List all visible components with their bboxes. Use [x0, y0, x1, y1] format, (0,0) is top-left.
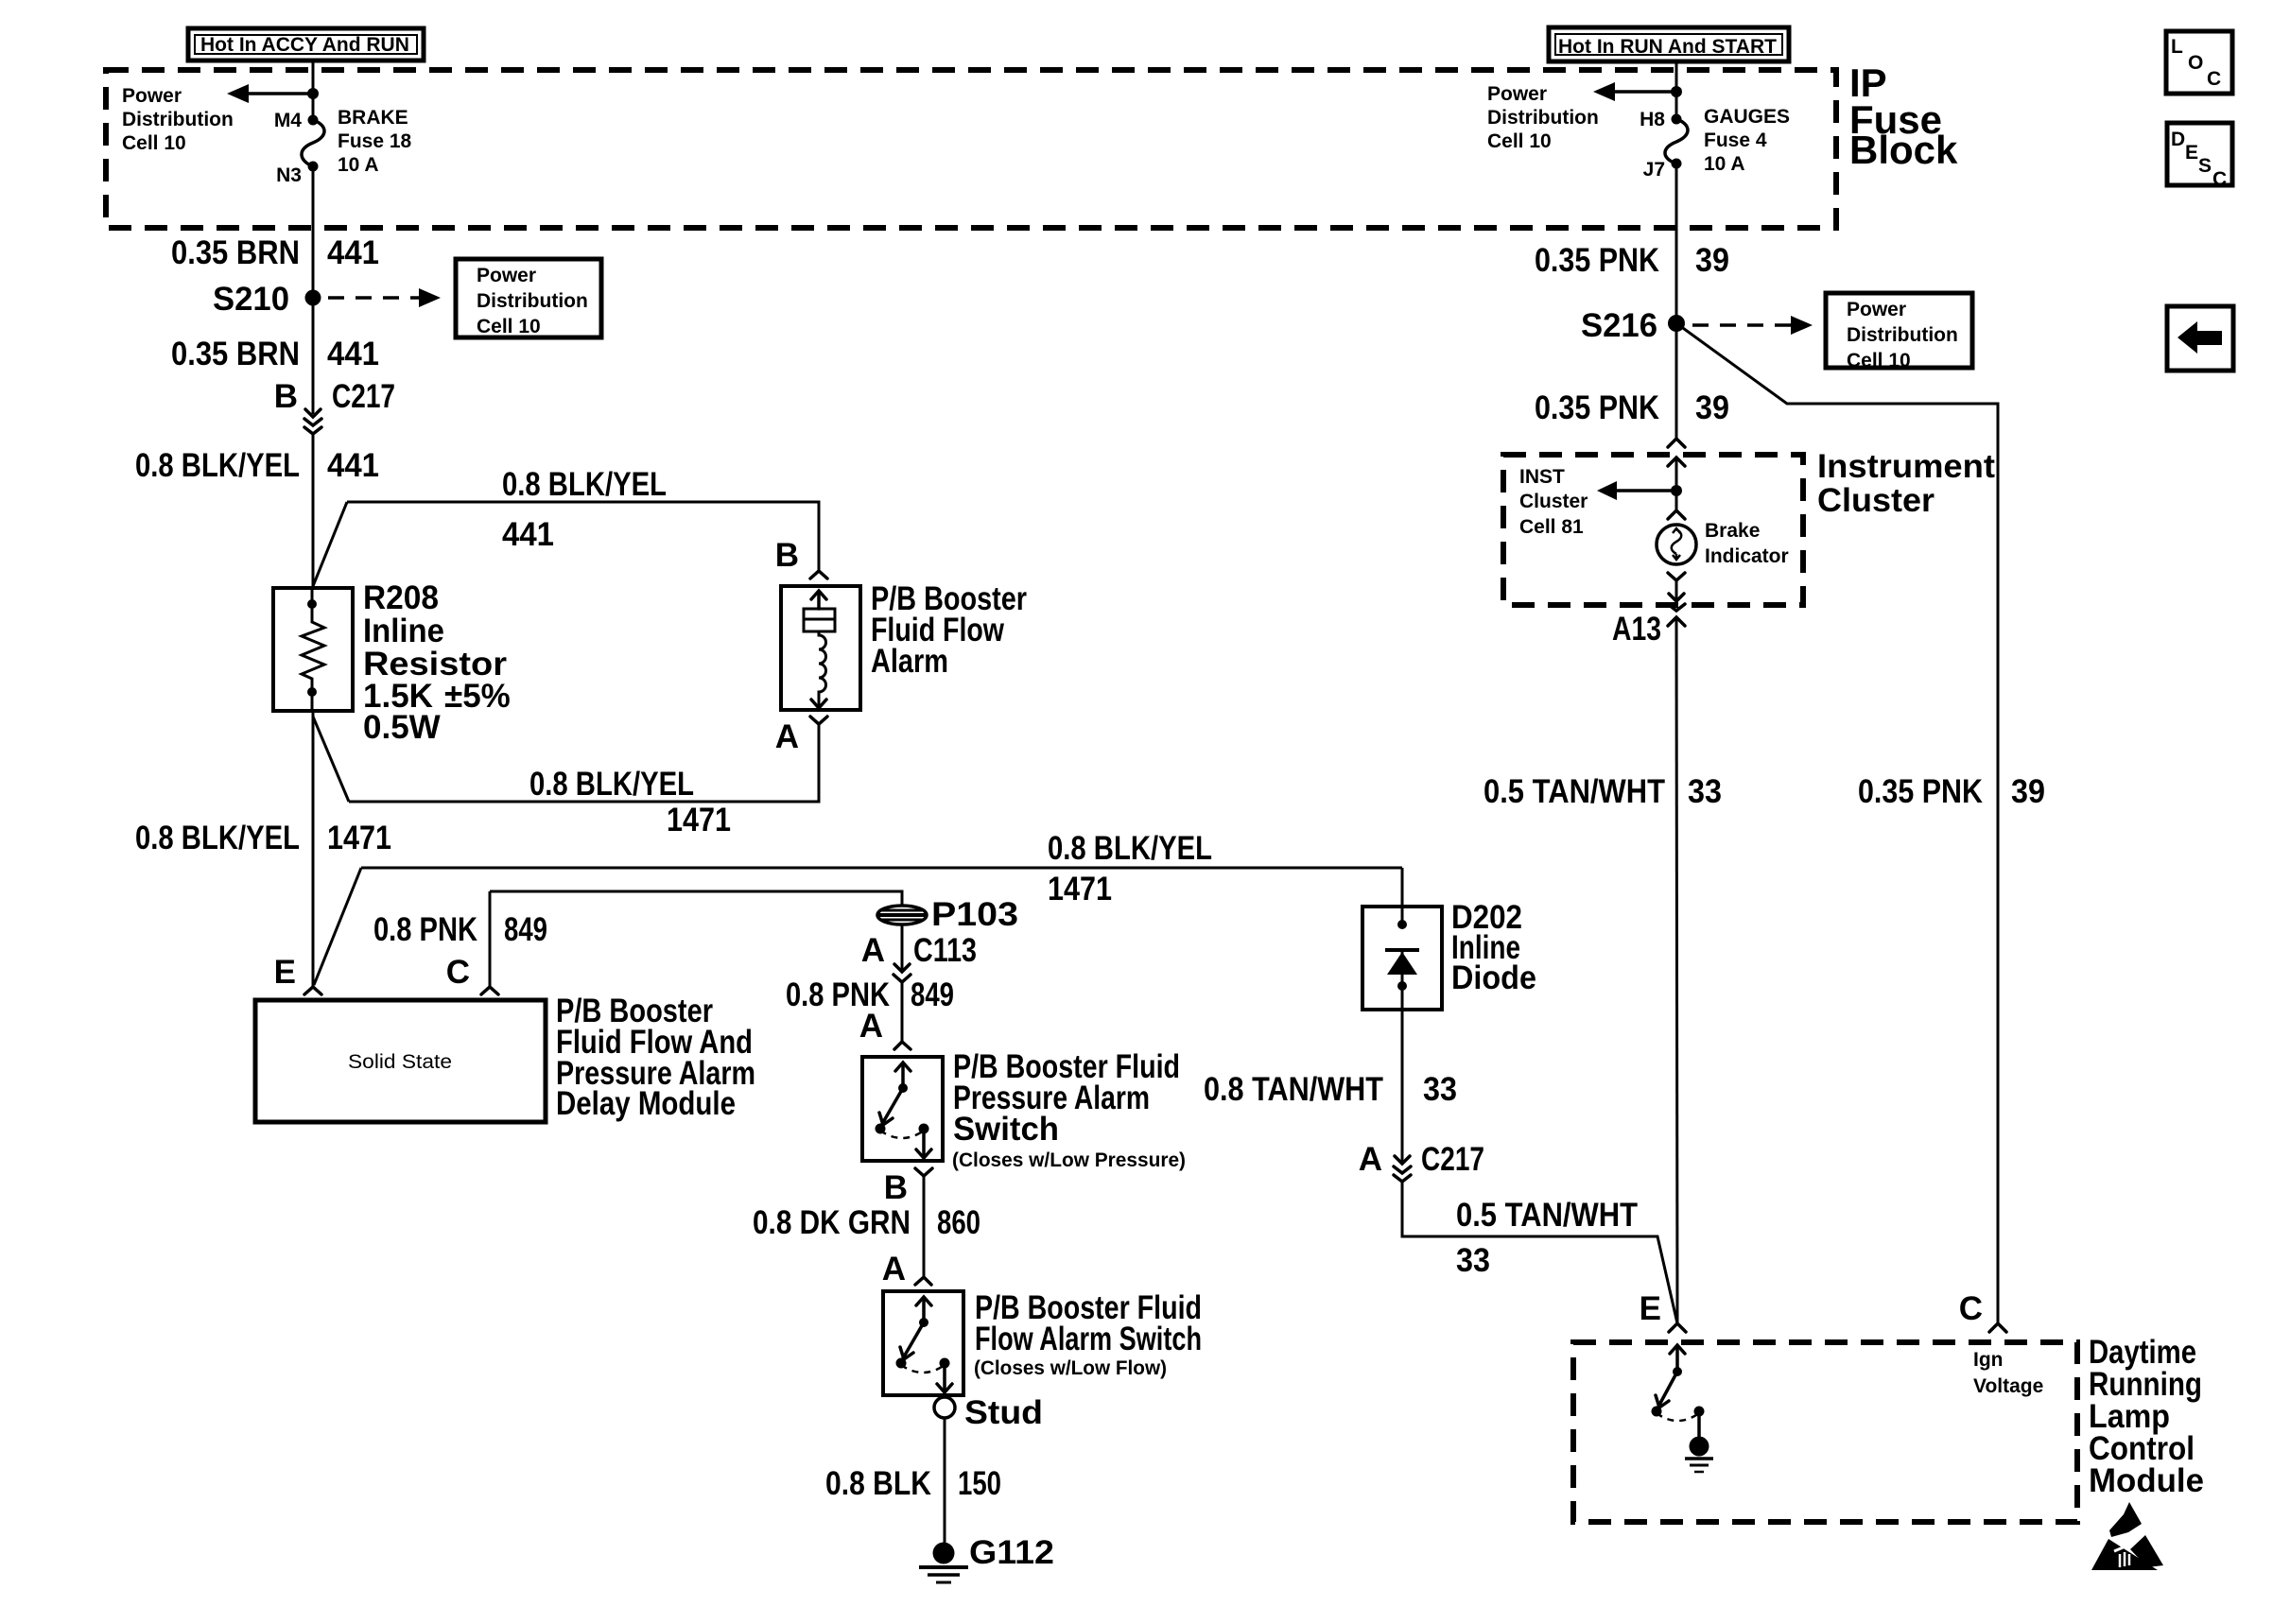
brake indicator bulb — [1657, 525, 1696, 564]
wire: diagonal from main wire up to alarm B branch — [313, 502, 347, 586]
fuse F4 terminals H8/J7 — [1672, 114, 1682, 125]
DRL pin E — [1640, 1290, 1686, 1332]
label box: Hot In RUN And START — [1549, 27, 1789, 61]
pass-through grommet P103 — [877, 896, 1018, 933]
cluster entry connector — [1668, 439, 1685, 466]
svg-text:D: D — [2171, 129, 2185, 150]
svg-text:INST: INST — [1519, 466, 1565, 488]
Daytime Running Lamp Control Module dashed box — [1573, 1342, 2077, 1522]
delay module label — [556, 993, 755, 1122]
wire label 0.35 PNK 39 (upper) — [1535, 242, 1729, 279]
svg-text:Delay Module: Delay Module — [556, 1085, 736, 1122]
svg-text:N3: N3 — [276, 164, 302, 186]
svg-text:L: L — [2171, 36, 2183, 58]
Power Distribution Cell 10 box (S210) — [456, 259, 601, 337]
DRL pin C — [1959, 1290, 2006, 1332]
arrow to Power Distribution Cell 10 (left) — [227, 84, 313, 103]
wire label 0.35 BRN 441 (upper) — [171, 234, 379, 271]
wire: long horizontal 0.8 BLK/YEL 1471 to D202 — [361, 867, 1402, 870]
svg-text:39: 39 — [1695, 242, 1729, 279]
svg-text:Distribution: Distribution — [1847, 324, 1958, 346]
wire: R208 down to module pin E — [312, 711, 315, 987]
wire: into cluster to junction — [1675, 458, 1678, 510]
Ign Voltage label — [1973, 1349, 2043, 1397]
svg-text:GAUGES: GAUGES — [1704, 106, 1790, 128]
svg-text:C217: C217 — [332, 378, 395, 415]
resistor R208 box — [273, 588, 353, 711]
wire: D202 down to C217 — [1401, 986, 1404, 1164]
svg-text:Ign: Ign — [1973, 1349, 2004, 1371]
svg-text:±5%: ±5% — [444, 678, 511, 715]
svg-text:Power: Power — [477, 265, 536, 286]
svg-text:Flow Alarm Switch: Flow Alarm Switch — [975, 1321, 1202, 1357]
svg-text:0.8 BLK/YEL: 0.8 BLK/YEL — [135, 447, 300, 484]
wire: S216 down to instrument cluster — [1675, 323, 1678, 439]
svg-text:Fuse 4: Fuse 4 — [1704, 130, 1767, 151]
wire label 0.5 TAN/WHT 33 (bottom) — [1456, 1197, 1638, 1279]
wire: C217 down to R208 — [312, 434, 315, 588]
svg-text:Distribution: Distribution — [122, 109, 234, 130]
svg-text:R208: R208 — [363, 579, 439, 616]
svg-text:C: C — [2212, 168, 2227, 190]
svg-text:A: A — [861, 932, 885, 969]
svg-text:G112: G112 — [969, 1534, 1054, 1571]
svg-text:849: 849 — [911, 976, 954, 1013]
wire: horizontal 0.8 BLK/YEL 1471 from alarm A — [349, 724, 819, 802]
alarm label — [871, 580, 1027, 680]
alarm coil — [819, 631, 826, 707]
connector A13 at cluster bottom — [1612, 594, 1685, 648]
wire: drop into D202 — [1401, 868, 1404, 924]
wire label 0.8 BLK 150 — [825, 1465, 1001, 1502]
wire: diagonal down-left to module pin E — [314, 868, 361, 985]
ground G112 — [919, 1534, 1054, 1582]
svg-text:33: 33 — [1423, 1071, 1457, 1108]
svg-text:Cell 81: Cell 81 — [1519, 516, 1584, 538]
svg-text:Cell 10: Cell 10 — [477, 316, 541, 337]
Power Distribution Cell 10 text (left fuse) — [122, 85, 234, 154]
delay module pin C — [446, 954, 498, 994]
brake indicator label — [1705, 520, 1789, 567]
fuse BRAKE Fuse 18 symbol — [302, 120, 324, 166]
wire: horizontal 0.8 BLK/YEL 441 to alarm B — [347, 502, 819, 571]
resistor R208 pins — [307, 599, 317, 609]
svg-text:0.35 PNK: 0.35 PNK — [1535, 242, 1659, 279]
DRL module label — [2089, 1334, 2204, 1499]
svg-text:C217: C217 — [1421, 1141, 1484, 1178]
svg-text:O: O — [2188, 52, 2203, 74]
svg-text:39: 39 — [1695, 389, 1729, 426]
Instrument Cluster dashed box — [1503, 455, 1803, 605]
wire: 0.5 TAN/WHT 33 to DRL pin E — [1402, 1182, 1677, 1323]
arrow to INST Cluster Cell 81 — [1597, 481, 1676, 500]
node: right feed junction — [1671, 86, 1682, 97]
svg-text:B: B — [274, 378, 298, 415]
svg-text:C: C — [2207, 68, 2221, 90]
svg-text:0.8 DK GRN: 0.8 DK GRN — [753, 1204, 911, 1241]
svg-text:0.5W: 0.5W — [363, 709, 441, 746]
svg-text:0.35 BRN: 0.35 BRN — [171, 234, 300, 271]
wire label 0.8 PNK 849 (below C113) — [786, 976, 954, 1013]
svg-text:Instrument: Instrument — [1817, 448, 1995, 485]
wire: branch 0.35 PNK 39 from S216 to DRL pin C — [1676, 323, 1998, 1323]
svg-text:0.5 TAN/WHT: 0.5 TAN/WHT — [1484, 773, 1665, 810]
svg-text:39: 39 — [2011, 773, 2045, 810]
P/B Booster Fluid Flow Alarm pin B — [775, 537, 827, 579]
svg-text:A13: A13 — [1612, 611, 1661, 648]
alarm internal up arrow — [811, 591, 826, 609]
Instrument Cluster label — [1817, 448, 1995, 519]
wire label 0.8 TAN/WHT 33 — [1204, 1071, 1457, 1108]
delay module pin E — [274, 954, 321, 994]
wire: riser from pin C up — [489, 891, 492, 987]
DRL internal ground — [1685, 1437, 1713, 1473]
svg-text:0.8 BLK: 0.8 BLK — [825, 1465, 931, 1502]
P/B Booster Fluid Flow Alarm Switch box — [883, 1291, 963, 1395]
pressure switch label — [952, 1048, 1186, 1171]
svg-text:10 A: 10 A — [1704, 153, 1745, 175]
wire label 0.35 PNK 39 (branch) — [1858, 773, 2045, 810]
node S216 — [1668, 315, 1685, 332]
node: cluster junction — [1671, 485, 1682, 496]
svg-text:A: A — [882, 1251, 906, 1287]
flow switch arm — [896, 1297, 953, 1392]
svg-text:Stud: Stud — [964, 1394, 1043, 1431]
connector C217 pin A (inline) — [1359, 1141, 1484, 1182]
wire: P103 down to C113 — [901, 924, 904, 972]
svg-text:Fuse 18: Fuse 18 — [338, 130, 412, 152]
svg-text:860: 860 — [937, 1204, 980, 1241]
wire label 0.8 DK GRN 860 — [753, 1204, 980, 1241]
wire: left feed from Hot In ACCY box to fuse — [312, 60, 315, 120]
INST Cluster Cell 81 text — [1519, 466, 1588, 538]
svg-text:441: 441 — [327, 234, 379, 271]
svg-text:A: A — [859, 1008, 883, 1045]
fuse 4 label — [1704, 106, 1790, 175]
wire: S210 down to C217 — [312, 298, 315, 414]
svg-text:0.8 BLK/YEL: 0.8 BLK/YEL — [529, 766, 694, 803]
svg-text:E: E — [274, 954, 296, 991]
svg-text:Block: Block — [1849, 128, 1958, 172]
svg-text:E: E — [2185, 142, 2198, 164]
IP Fuse Block label — [1849, 60, 1958, 172]
svg-text:C: C — [1959, 1290, 1983, 1327]
svg-text:Alarm: Alarm — [871, 643, 948, 680]
P/B Booster Fluid Pressure Alarm Switch box — [862, 1057, 943, 1161]
D202 label — [1451, 899, 1536, 996]
wire: bulb to cluster edge — [1675, 580, 1678, 599]
bulb exit connector — [1668, 573, 1685, 580]
svg-text:0.8 PNK: 0.8 PNK — [373, 911, 477, 948]
IP fuse block dashed box — [106, 70, 1836, 228]
svg-text:S210: S210 — [213, 281, 289, 318]
alarm sensor element — [804, 609, 835, 631]
wire: B down to flow switch A — [923, 1176, 926, 1277]
back arrow box — [2167, 306, 2233, 371]
dashed arrow S216 to Power Distribution — [1692, 316, 1813, 335]
R208 label — [363, 579, 511, 746]
wire: C113 down to pressure switch — [901, 982, 904, 1042]
svg-text:0.35 PNK: 0.35 PNK — [1535, 389, 1659, 426]
svg-text:0.35 BRN: 0.35 BRN — [171, 336, 300, 372]
svg-text:B: B — [775, 537, 799, 574]
svg-text:Power: Power — [1847, 299, 1906, 320]
fuse GAUGES Fuse 4 symbol — [1665, 119, 1688, 164]
svg-text:0.8 BLK/YEL: 0.8 BLK/YEL — [502, 466, 667, 503]
wire: diagonal from R208 bottom to alarm A branch — [313, 717, 349, 802]
connector C217 pin B (inline) — [274, 378, 395, 434]
svg-text:0.5 TAN/WHT: 0.5 TAN/WHT — [1456, 1197, 1638, 1234]
svg-text:Hot In ACCY And RUN: Hot In ACCY And RUN — [200, 34, 409, 56]
svg-text:S216: S216 — [1581, 307, 1657, 344]
svg-text:150: 150 — [958, 1465, 1001, 1502]
svg-text:E: E — [1640, 1290, 1661, 1327]
svg-text:0.8 TAN/WHT: 0.8 TAN/WHT — [1204, 1071, 1383, 1108]
svg-text:441: 441 — [327, 447, 379, 484]
wire: N3 down to S210 — [312, 166, 315, 298]
wire label 0.5 TAN/WHT 33 — [1484, 773, 1722, 810]
svg-text:Distribution: Distribution — [477, 290, 588, 312]
svg-text:C113: C113 — [913, 932, 977, 969]
svg-text:Inline: Inline — [363, 613, 444, 649]
fuse 18 label — [338, 107, 412, 176]
alarm internal down arrow — [811, 700, 826, 708]
svg-text:Voltage: Voltage — [1973, 1375, 2043, 1397]
Power Distribution Cell 10 box (S216) — [1826, 293, 1972, 371]
branch label 0.8 BLK/YEL 441 — [502, 466, 667, 553]
svg-text:Diode: Diode — [1451, 959, 1536, 996]
svg-text:H8: H8 — [1640, 109, 1665, 130]
svg-text:0.8 BLK/YEL: 0.8 BLK/YEL — [135, 820, 300, 856]
svg-text:1471: 1471 — [327, 820, 391, 856]
flow switch pin A — [882, 1251, 931, 1287]
long wire label 0.8 BLK/YEL 1471 — [1048, 830, 1212, 907]
svg-text:33: 33 — [1688, 773, 1722, 810]
wire label 0.35 BRN 441 (lower) — [171, 336, 379, 372]
svg-text:Hot In RUN And START: Hot In RUN And START — [1558, 36, 1777, 58]
wire: J7 down to S216 — [1675, 164, 1678, 323]
brake indicator bulb connector — [1668, 510, 1685, 519]
pressure switch arm — [876, 1063, 932, 1158]
svg-text:S: S — [2198, 155, 2212, 177]
svg-text:1471: 1471 — [667, 802, 731, 838]
svg-text:Solid State: Solid State — [348, 1051, 452, 1073]
wire: horizontal 0.8 PNK 849 to P103 — [490, 891, 902, 906]
svg-text:1471: 1471 — [1048, 871, 1112, 907]
svg-text:(Closes w/Low Flow): (Closes w/Low Flow) — [974, 1357, 1167, 1379]
wire label 0.8 BLK/YEL 1471 (main) — [135, 820, 391, 856]
wire: A13 down to DRL pin E — [1676, 617, 1677, 1323]
arrow to Power Distribution Cell 10 (right) — [1593, 82, 1676, 101]
DESC reference box — [2167, 123, 2232, 190]
label box: Hot In ACCY And RUN — [188, 28, 424, 60]
DRL internal switch — [1652, 1345, 1705, 1437]
svg-text:M4: M4 — [274, 110, 302, 131]
P/B Booster Fluid Flow Alarm pin A — [775, 717, 827, 755]
wire: stud down to G112 — [944, 1418, 946, 1545]
svg-text:A: A — [1359, 1141, 1382, 1178]
wire label 0.8 BLK/YEL 441 — [135, 447, 379, 484]
svg-text:10 A: 10 A — [338, 154, 379, 176]
svg-text:J7: J7 — [1643, 159, 1665, 181]
Power Distribution Cell 10 text (right fuse) — [1487, 83, 1599, 152]
svg-text:P103: P103 — [931, 896, 1018, 933]
svg-text:Cell 10: Cell 10 — [1847, 350, 1911, 371]
svg-text:Switch: Switch — [953, 1111, 1059, 1148]
svg-text:0.35 PNK: 0.35 PNK — [1858, 773, 1983, 810]
svg-text:Brake: Brake — [1705, 520, 1760, 542]
svg-text:Distribution: Distribution — [1487, 107, 1599, 129]
wire label 0.8 PNK 849 — [373, 911, 547, 948]
dashed arrow S210 to Power Distribution — [328, 288, 441, 307]
svg-text:Cell 10: Cell 10 — [122, 132, 186, 154]
connector C113 pin A (inline) — [861, 932, 977, 982]
svg-text:Cluster: Cluster — [1519, 491, 1588, 512]
svg-text:Power: Power — [1487, 83, 1547, 105]
fuse F18 terminals M4/N3 — [308, 115, 319, 126]
svg-text:33: 33 — [1456, 1242, 1490, 1279]
ESD warning symbol — [2091, 1502, 2163, 1570]
pressure switch pin B — [884, 1168, 932, 1206]
node: left feed junction — [307, 88, 319, 99]
svg-text:C: C — [446, 954, 470, 991]
svg-text:Module: Module — [2089, 1462, 2204, 1499]
svg-text:(Closes w/Low Pressure): (Closes w/Low Pressure) — [952, 1149, 1186, 1171]
svg-text:441: 441 — [327, 336, 379, 372]
branch label 0.8 BLK/YEL 1471 — [529, 766, 731, 838]
svg-text:0.8 BLK/YEL: 0.8 BLK/YEL — [1048, 830, 1212, 867]
svg-text:Cell 10: Cell 10 — [1487, 130, 1552, 152]
svg-text:441: 441 — [502, 516, 554, 553]
flow switch label — [974, 1289, 1202, 1379]
resistor R208 zigzag — [302, 588, 324, 711]
svg-text:A: A — [775, 718, 799, 755]
svg-text:849: 849 — [504, 911, 547, 948]
svg-text:Indicator: Indicator — [1705, 545, 1789, 567]
diode D202 — [1385, 920, 1419, 991]
svg-text:Power: Power — [122, 85, 182, 107]
stud terminal — [934, 1394, 1043, 1431]
svg-text:Cluster: Cluster — [1817, 482, 1935, 519]
P/B Booster delay module box (Solid State) — [255, 1000, 546, 1122]
wire: right feed from Hot In RUN box to fuse — [1675, 61, 1678, 119]
svg-text:BRAKE: BRAKE — [338, 107, 408, 129]
wire label 0.35 PNK 39 (lower) — [1535, 389, 1729, 426]
LOC reference box — [2166, 31, 2232, 94]
pressure switch pin A — [859, 1008, 911, 1049]
node S210 — [305, 290, 321, 306]
P/B Booster Fluid Flow Alarm box — [781, 586, 860, 710]
diode D202 box — [1362, 907, 1442, 1010]
svg-text:B: B — [884, 1169, 908, 1206]
